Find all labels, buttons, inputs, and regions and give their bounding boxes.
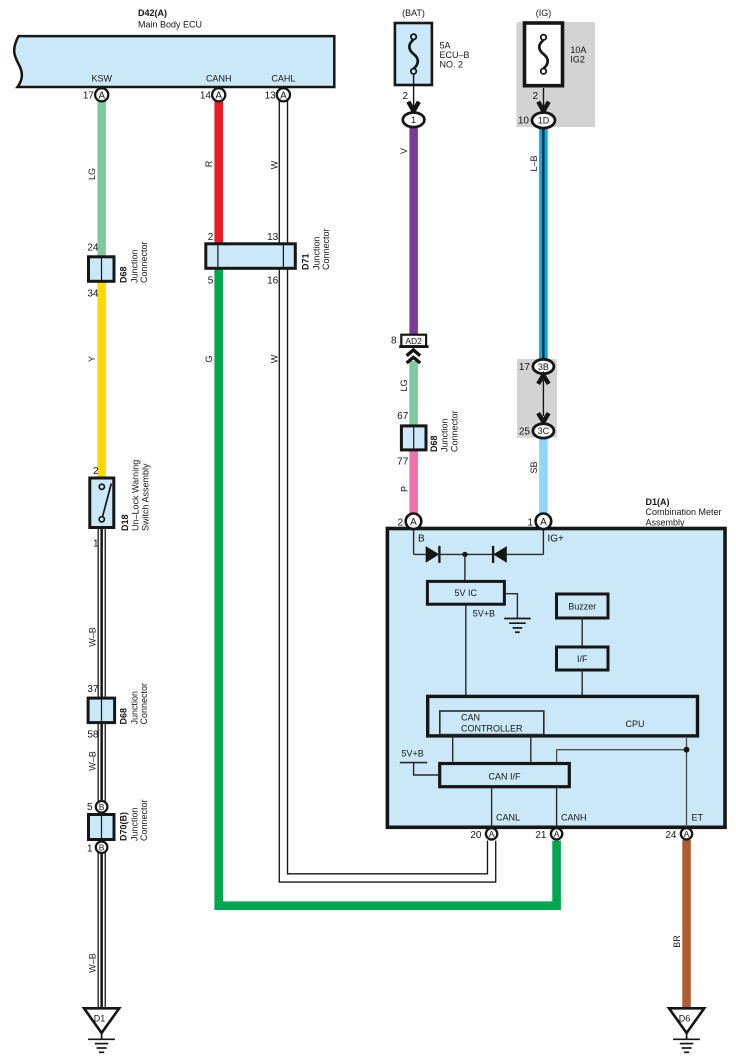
connector oval 1 <box>403 113 425 128</box>
svg-text:D70(B): D70(B) <box>119 812 129 841</box>
svg-text:A: A <box>280 90 287 101</box>
svg-text:D6: D6 <box>679 1014 691 1024</box>
wire W-B (D70 pin 1 to ground D1) <box>87 852 106 1010</box>
svg-text:2: 2 <box>532 91 538 102</box>
pin 13 A (CAHL) <box>265 88 290 101</box>
svg-text:W: W <box>269 160 279 169</box>
svg-text:5: 5 <box>208 276 214 287</box>
svg-text:25: 25 <box>519 427 531 438</box>
5V+B tap (CAN I/F) <box>400 749 440 776</box>
Buzzer box <box>557 594 609 618</box>
pin 21 A (CANH) <box>535 828 562 841</box>
wire (dot to 5V IC) <box>464 554 466 580</box>
svg-text:Assembly: Assembly <box>646 518 686 528</box>
svg-text:5V+B: 5V+B <box>473 609 495 619</box>
svg-text:CANH: CANH <box>206 73 232 83</box>
svg-text:13: 13 <box>267 232 279 243</box>
wire LG (KSW, D42 pin 17 to D68 pin 24) <box>87 101 106 257</box>
5V IC box <box>427 581 504 618</box>
svg-text:17: 17 <box>83 91 95 102</box>
label ET <box>692 812 704 822</box>
wire (5V IC to CPU) <box>465 605 467 697</box>
svg-text:D42(A): D42(A) <box>138 8 167 18</box>
junction connector D68 (pins 67/77) <box>397 410 459 467</box>
double arrow between 3B and 3C <box>538 375 549 422</box>
wire (I/F to CPU) <box>581 670 583 697</box>
svg-text:CANL: CANL <box>496 812 520 822</box>
svg-text:34: 34 <box>87 289 99 300</box>
svg-text:1: 1 <box>527 518 533 529</box>
node junction dot (ET) <box>684 747 690 753</box>
svg-text:2: 2 <box>93 466 99 477</box>
svg-text:Combination Meter: Combination Meter <box>646 507 722 517</box>
svg-text:20: 20 <box>470 830 482 841</box>
svg-text:Junction: Junction <box>440 418 450 452</box>
wire (diode rail) <box>414 553 544 555</box>
svg-text:A: A <box>489 829 495 839</box>
svg-text:W–B: W–B <box>87 751 97 771</box>
svg-text:V: V <box>399 148 409 154</box>
svg-text:D1: D1 <box>94 1014 106 1024</box>
wires (CAN CONTROLLER to CAN I/F) <box>453 736 531 762</box>
ground D6 <box>669 1008 704 1052</box>
svg-text:W–B: W–B <box>87 627 97 647</box>
wire R (CANH, D42 pin 14 to D71 pin 2) <box>204 101 223 244</box>
svg-text:LG: LG <box>87 168 97 180</box>
svg-text:IG+: IG+ <box>548 534 565 545</box>
fuse 10A IG2 (IG) <box>525 8 587 86</box>
svg-text:R: R <box>204 160 214 167</box>
svg-text:W–B: W–B <box>87 953 97 973</box>
svg-text:AD2: AD2 <box>405 336 422 346</box>
wire G (D71 pin 5 to D1(A) pin 21 CANH) <box>204 269 557 906</box>
svg-text:CAN: CAN <box>461 713 480 723</box>
wire (fuse to connector 1D) <box>532 88 543 112</box>
junction connector D68 (pins 24/34) <box>87 241 149 299</box>
pin 17 A (KSW) <box>83 88 108 101</box>
svg-text:D71: D71 <box>301 253 311 270</box>
svg-text:D68: D68 <box>119 266 129 283</box>
svg-text:A: A <box>540 517 547 528</box>
wire W (CAHL, D42 pin 13 to D1(A) pin 20 CANL) <box>269 101 491 878</box>
svg-text:L–B: L–B <box>529 155 539 171</box>
svg-text:Connector: Connector <box>139 683 149 725</box>
wire L-B (fuse IG2 to connector 3B) <box>529 127 548 361</box>
svg-text:IG2: IG2 <box>570 55 585 65</box>
svg-text:3B: 3B <box>538 362 549 372</box>
Combination Meter Assembly D1(A) box <box>387 497 725 828</box>
svg-text:Un–Lock Warning: Un–Lock Warning <box>131 460 141 531</box>
svg-text:1D: 1D <box>538 116 550 126</box>
node junction dot <box>462 552 467 557</box>
svg-text:Junction: Junction <box>312 236 322 270</box>
ground (5V IC) <box>504 594 531 633</box>
svg-text:8: 8 <box>391 336 397 347</box>
svg-text:D1(A): D1(A) <box>646 497 670 507</box>
double chevron below AD2 <box>407 350 421 363</box>
wire V (fuse ECU-B to AD2) <box>399 126 418 335</box>
switch D18 Un-Lock Warning Switch Assembly <box>90 460 151 550</box>
svg-text:Main Body ECU: Main Body ECU <box>138 20 202 30</box>
connector oval 3B <box>519 359 554 373</box>
wire (fuse to connector 1) <box>402 74 413 112</box>
svg-text:P: P <box>399 486 409 492</box>
wire ET (CPU to pin 24) <box>557 738 687 827</box>
CAN CONTROLLER box <box>440 711 544 735</box>
svg-text:5: 5 <box>87 802 93 813</box>
svg-text:NO. 2: NO. 2 <box>440 60 464 70</box>
svg-text:5V IC: 5V IC <box>455 588 478 598</box>
svg-text:A: A <box>410 517 417 528</box>
svg-text:24: 24 <box>665 830 677 841</box>
svg-text:Connector: Connector <box>450 410 460 452</box>
svg-text:I/F: I/F <box>577 654 588 664</box>
svg-text:Buzzer: Buzzer <box>568 601 596 611</box>
svg-text:SB: SB <box>529 461 539 473</box>
svg-text:W: W <box>269 354 279 363</box>
svg-text:Connector: Connector <box>139 799 149 841</box>
svg-text:ET: ET <box>692 812 704 822</box>
svg-text:10A: 10A <box>570 45 586 55</box>
wire Y (D68 pin 34 to D18 pin 2) <box>87 281 106 478</box>
svg-text:CAN I/F: CAN I/F <box>488 771 521 781</box>
pin 1 A (D1(A)) <box>527 514 551 530</box>
svg-text:(IG): (IG) <box>536 8 552 18</box>
svg-text:3C: 3C <box>538 426 550 436</box>
svg-text:5A: 5A <box>440 41 451 51</box>
svg-text:13: 13 <box>265 91 277 102</box>
svg-text:1: 1 <box>87 844 93 855</box>
junction connector D71 (pins 2,13 / 5,16) <box>206 228 331 286</box>
svg-text:B: B <box>99 842 105 852</box>
connector B (D70 pin 5) <box>87 801 107 813</box>
svg-text:Y: Y <box>87 356 97 362</box>
junction connector D70(B) <box>89 799 150 841</box>
connector B (D70 pin 1) <box>87 842 107 855</box>
svg-text:Junction: Junction <box>130 807 140 841</box>
junction connector D68 (pins 37/58) <box>87 683 149 741</box>
svg-text:77: 77 <box>397 457 409 468</box>
wire W-B (D18 pin 1 to D68 pin 37) <box>87 528 106 698</box>
svg-text:14: 14 <box>200 91 212 102</box>
connector oval 3C <box>519 424 554 438</box>
svg-text:Connector: Connector <box>321 228 331 270</box>
pin 24 A (ET) <box>665 828 692 841</box>
connector oval 1D <box>518 113 555 129</box>
svg-text:G: G <box>204 355 214 362</box>
svg-text:CPU: CPU <box>625 719 644 729</box>
wire SB (connector 3C to D1(A) pin 1) <box>529 436 548 515</box>
svg-text:2: 2 <box>402 91 408 102</box>
connector AD2 <box>391 335 429 347</box>
wire P (D68 pin 77 to D1(A) pin 2) <box>399 450 418 515</box>
ground D1 <box>84 1008 119 1052</box>
svg-text:5V+B: 5V+B <box>402 749 424 759</box>
wire W-B (D68 pin 58 to D70 pin 5) <box>87 722 106 802</box>
svg-text:1: 1 <box>93 539 99 550</box>
CPU box <box>428 696 698 736</box>
node B (from pin 2) <box>414 530 425 554</box>
svg-text:1: 1 <box>411 115 416 125</box>
svg-text:KSW: KSW <box>92 73 113 83</box>
svg-text:B: B <box>99 802 105 812</box>
wire LG (AD2 to D68 pin 67) <box>399 361 418 426</box>
diode (B side) <box>426 546 440 563</box>
svg-text:B: B <box>418 534 425 545</box>
svg-text:24: 24 <box>87 243 99 254</box>
svg-text:A: A <box>554 829 560 839</box>
svg-text:D18: D18 <box>120 514 130 531</box>
svg-text:67: 67 <box>397 411 409 422</box>
I/F box <box>557 647 609 670</box>
pin 2 A (D1(A)) <box>397 514 421 530</box>
wire BR (D1(A) pin 24 ET to ground D6) <box>672 840 691 1010</box>
svg-text:10: 10 <box>518 116 530 127</box>
CAN I/F box <box>440 764 570 787</box>
svg-text:A: A <box>684 829 690 839</box>
diode (IG+ side) <box>493 546 507 563</box>
svg-text:D68: D68 <box>429 435 439 452</box>
svg-text:A: A <box>215 90 222 101</box>
svg-text:16: 16 <box>267 276 279 287</box>
svg-text:2: 2 <box>397 518 403 529</box>
svg-text:A: A <box>98 90 105 101</box>
svg-text:ECU–B: ECU–B <box>440 50 470 60</box>
wire CANH (CAN I/F to pin 21) <box>557 787 587 827</box>
wire (Buzzer to I/F) <box>581 618 583 647</box>
svg-text:2: 2 <box>208 232 214 243</box>
svg-text:Connector: Connector <box>139 241 149 283</box>
wire CANL (CAN I/F to pin 20) <box>492 787 520 827</box>
node IG+ (from pin 1) <box>543 530 564 554</box>
gray background block around IG fuse <box>517 22 596 127</box>
svg-text:Junction: Junction <box>130 249 140 283</box>
svg-text:58: 58 <box>87 730 99 741</box>
svg-text:BR: BR <box>672 935 682 948</box>
svg-text:21: 21 <box>535 830 547 841</box>
fuse 5A ECU-B NO.2 (BAT) <box>395 8 470 85</box>
arrow into connector 1 <box>408 102 419 111</box>
gray background block around 3B/3C connectors <box>517 359 557 438</box>
svg-text:(BAT): (BAT) <box>402 8 425 18</box>
arrow into connector 1D <box>538 102 549 111</box>
svg-text:CAHL: CAHL <box>271 73 295 83</box>
svg-text:37: 37 <box>87 684 99 695</box>
pin 20 A (CANL) <box>470 828 497 841</box>
pin 14 A (CANH) <box>200 88 225 101</box>
svg-text:LG: LG <box>399 379 409 391</box>
svg-text:Switch Assembly: Switch Assembly <box>141 463 151 531</box>
svg-text:CONTROLLER: CONTROLLER <box>461 723 523 733</box>
svg-text:Junction: Junction <box>130 691 140 725</box>
Main Body ECU D42(A) box <box>14 8 334 87</box>
svg-text:CANH: CANH <box>561 812 587 822</box>
svg-text:D68: D68 <box>119 708 129 725</box>
svg-text:17: 17 <box>519 362 531 373</box>
